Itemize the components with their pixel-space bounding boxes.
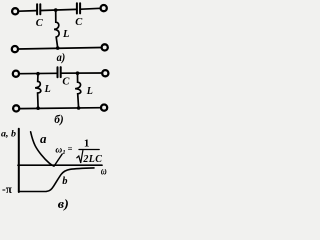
terminal bottom-left (circuit a) [12, 46, 18, 52]
svg-text:L: L [86, 86, 93, 97]
svg-text:ω: ω [101, 164, 107, 178]
svg-text:б): б) [54, 114, 64, 126]
leader tick at cutoff w1 [54, 154, 62, 166]
wire top rail left segment (circuit b) [20, 72, 57, 74]
y-axis (graph v) [18, 129, 20, 192]
terminal top-left (circuit b) [13, 71, 19, 77]
x-axis (graph v) [18, 164, 102, 166]
svg-text:1: 1 [84, 137, 90, 149]
curve a (attenuation) [31, 132, 54, 166]
radical sign [77, 150, 83, 163]
svg-text:-π: -π [2, 182, 12, 196]
curve b (phase) with -pi flat part [20, 168, 94, 192]
wire top rail right segment [81, 7, 100, 10]
node junction top-left (circuit b) [36, 72, 40, 76]
node junction top (circuit a) [54, 8, 58, 12]
svg-text:1: 1 [62, 149, 65, 156]
svg-text:L: L [62, 29, 69, 40]
svg-text:=: = [68, 143, 73, 153]
capacitor C3 (series, circuit b) [58, 67, 61, 77]
node junction bottom-left (circuit b) [36, 106, 40, 110]
capacitor C1 [37, 4, 40, 14]
terminal top-right (circuit b) [102, 70, 108, 76]
node junction bottom (circuit a) [56, 46, 60, 50]
terminal top-right (circuit a) [101, 5, 107, 11]
svg-text:L: L [44, 84, 51, 95]
terminal top-left (circuit a) [12, 8, 18, 14]
svg-text:а): а) [57, 52, 66, 64]
fraction bar [79, 149, 99, 151]
wire bottom rail (circuit b) [20, 107, 101, 110]
terminal bottom-left (circuit b) [13, 105, 19, 111]
wire top rail right segment (circuit b) [62, 72, 102, 74]
svg-text:C: C [36, 18, 44, 29]
inductor L3 (right shunt coil circuit b) [75, 73, 81, 108]
wire top rail middle segment [41, 9, 76, 10]
inductor L2 (left shunt coil circuit b) [35, 74, 41, 108]
svg-text:C: C [62, 76, 70, 87]
terminal bottom-right (circuit b) [101, 105, 107, 111]
svg-text:a, b: a, b [1, 129, 17, 139]
node junction top-right (circuit b) [76, 71, 80, 75]
inductor L1 (shunt coil circuit a) [54, 10, 59, 48]
svg-text:C: C [75, 17, 83, 28]
svg-text:в): в) [58, 197, 69, 211]
svg-text:ω: ω [55, 145, 62, 155]
svg-text:2LC: 2LC [82, 154, 102, 165]
capacitor C2 [77, 3, 80, 13]
node junction bottom-right (circuit b) [77, 106, 81, 110]
svg-text:a: a [40, 131, 47, 146]
wire bottom rail (circuit a) [19, 48, 102, 50]
svg-text:b: b [62, 176, 67, 187]
terminal bottom-right (circuit a) [102, 44, 108, 50]
wire top rail left segment [19, 10, 36, 13]
